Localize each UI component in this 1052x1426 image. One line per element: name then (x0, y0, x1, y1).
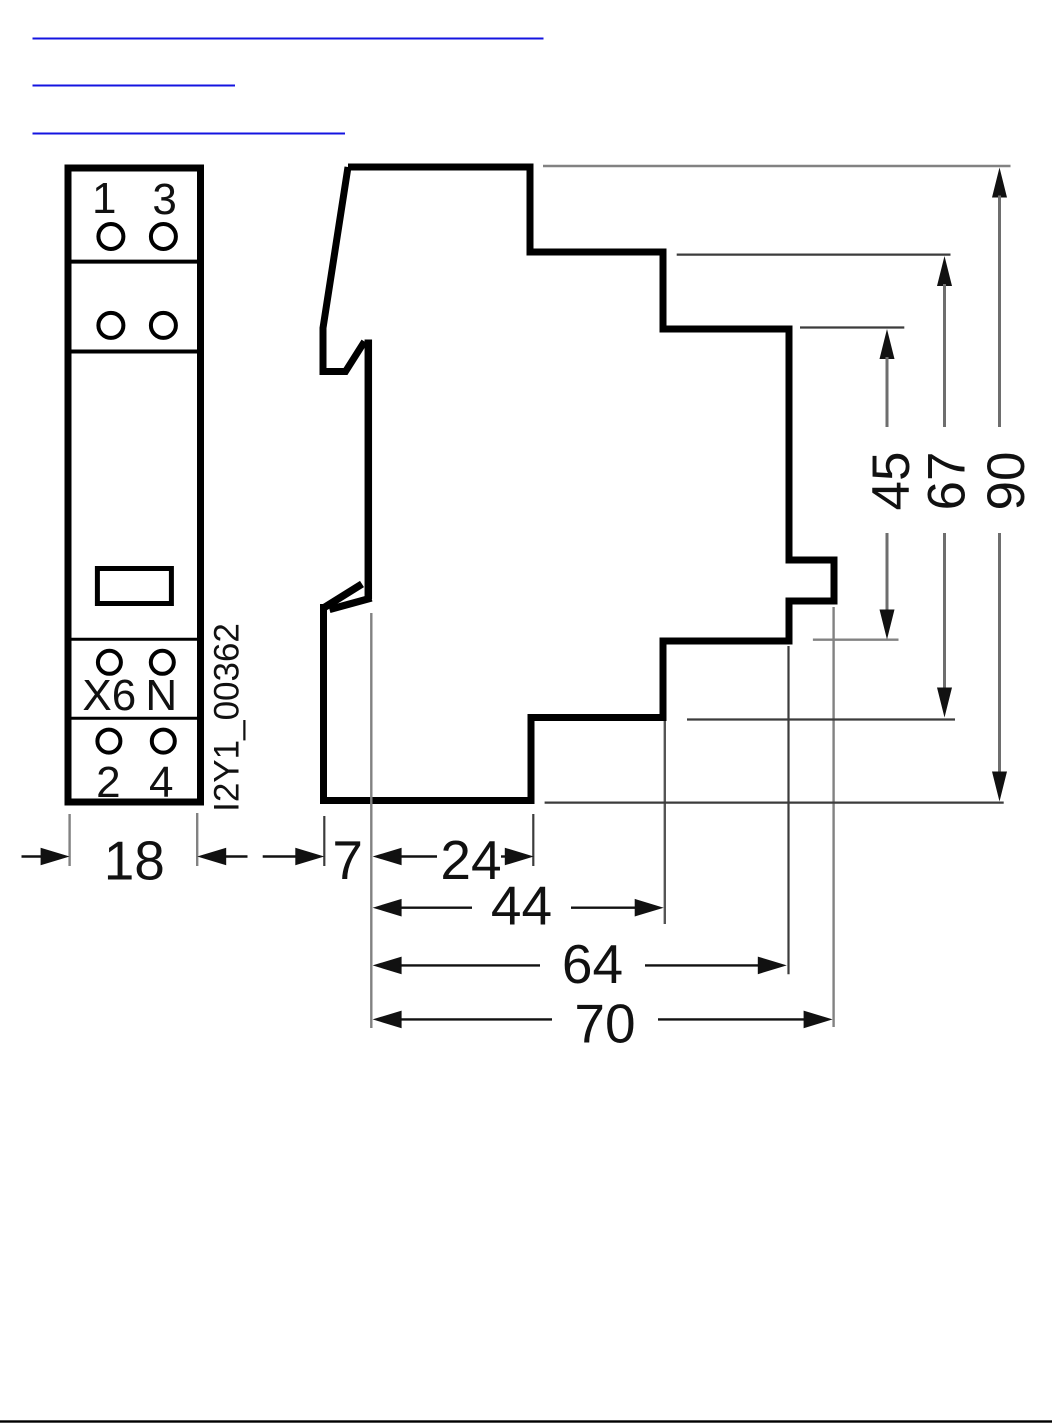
svg-text:N: N (145, 671, 177, 720)
extension line bottom of dim 90 (545, 801, 1004, 803)
svg-text:44: 44 (491, 875, 552, 937)
extension line left of dim 7 (323, 816, 325, 866)
side view DIN clip upper hook (323, 167, 365, 372)
svg-text:3: 3 (152, 175, 176, 224)
dimension 70 arrow right (658, 1011, 833, 1029)
terminal circle 3 (151, 224, 176, 249)
terminal circle 4 (152, 730, 175, 753)
terminal circle 1 (98, 224, 123, 249)
front view divider line 2 (72, 350, 198, 354)
svg-text:45: 45 (862, 452, 921, 511)
dimension 45 vertical line and arrows (880, 329, 895, 640)
extension line x665 for dim 44 (664, 721, 666, 924)
svg-text:2: 2 (96, 758, 120, 807)
dimension 24 arrow left (373, 848, 437, 866)
dimension 7 arrow (263, 848, 325, 866)
hyperlink underline 2 (33, 85, 236, 87)
svg-text:64: 64 (562, 933, 623, 995)
footer rule (0, 1420, 1052, 1422)
front view divider line 3 (72, 638, 198, 641)
svg-text:1: 1 (92, 174, 116, 223)
dimension 44 arrow left (373, 899, 472, 917)
extension line top of dim 67 (677, 254, 951, 256)
extension line bottom of dim 67 (687, 718, 955, 720)
svg-text:70: 70 (574, 993, 635, 1055)
dimension 44 arrow right (571, 899, 664, 917)
terminal circle row2 right (151, 313, 176, 338)
long extension line x371 for dims 44 64 70 (370, 613, 372, 1028)
hyperlink underline 1 (33, 38, 544, 40)
svg-text:I2Y1_00362: I2Y1_00362 (207, 623, 246, 812)
svg-text:18: 18 (104, 830, 165, 892)
extension line x788 for dim 64 (787, 646, 789, 974)
dimension 24 arrow right (501, 848, 534, 866)
side view DIN clip lower barb upper stroke (324, 584, 363, 608)
svg-text:7: 7 (332, 829, 363, 891)
extension line left of dim 18 (68, 814, 70, 866)
side view main outline (324, 167, 835, 801)
terminal circle row2 left (98, 313, 123, 338)
extension line bottom of dim 45 (813, 639, 899, 641)
svg-text:4: 4 (149, 758, 173, 807)
front view divider line 1 (72, 260, 198, 264)
svg-text:X6: X6 (82, 671, 136, 720)
dimension 18 arrow left (22, 848, 70, 866)
terminal circle 2 (97, 730, 120, 753)
dimension 67 vertical line and arrows (937, 256, 952, 718)
extension line right of dim 24 (532, 814, 534, 866)
dimension 70 arrow left (373, 1011, 552, 1029)
front view divider line 4 (72, 717, 198, 720)
side view DIN clip lower barb lower stroke (330, 598, 372, 610)
front view outline (68, 168, 201, 802)
terminal circle X6 (98, 651, 121, 674)
svg-text:67: 67 (918, 452, 977, 511)
side view inner vertical edge (365, 340, 373, 600)
dimension 64 arrow right (645, 957, 787, 975)
front view indicator window (97, 569, 171, 604)
svg-text:90: 90 (977, 452, 1036, 511)
dimension 64 arrow left (373, 957, 540, 975)
extension line right of dim 18 (196, 813, 198, 866)
extension line x833 for dim 70 (832, 607, 834, 1027)
dimension 18 arrow right (197, 848, 247, 866)
hyperlink underline 3 (33, 133, 346, 135)
extension line top for dim 90 (543, 165, 1011, 168)
terminal circle N (151, 651, 174, 674)
dimension 90 vertical line and arrows (992, 168, 1007, 802)
extension line top of dim 45 (800, 326, 904, 328)
